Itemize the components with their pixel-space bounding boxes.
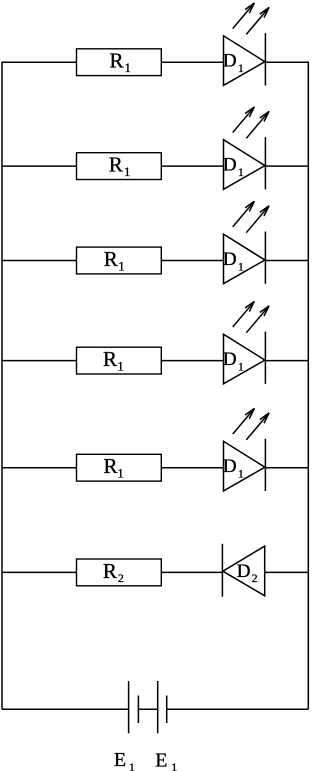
diode D2 xyxy=(222,544,264,597)
LED D1 branch 4 xyxy=(223,301,269,384)
wire D1 to right rail branch 4 xyxy=(265,360,308,362)
wire bottom left to battery xyxy=(2,708,129,710)
wire D1 to right rail branch 2 xyxy=(265,165,308,167)
svg-text:D: D xyxy=(223,249,237,270)
LED D1 branch 2 xyxy=(223,107,269,190)
svg-text:1: 1 xyxy=(238,259,244,273)
wire left rail to R1 branch 4 xyxy=(2,360,77,362)
svg-text:R: R xyxy=(109,153,123,177)
svg-text:2: 2 xyxy=(252,571,258,585)
wire left rail xyxy=(1,62,3,710)
wire right rail xyxy=(307,62,309,710)
wire left rail to R1 branch 3 xyxy=(2,260,77,262)
wire R1 to D1 branch 4 xyxy=(161,360,223,362)
svg-text:1: 1 xyxy=(171,760,177,771)
wire D2 to right rail xyxy=(265,571,309,573)
svg-text:1: 1 xyxy=(124,164,131,179)
wire left rail to R1 branch 1 xyxy=(2,61,77,63)
LED D1 branch 1 xyxy=(223,3,269,86)
svg-text:1: 1 xyxy=(125,60,132,75)
label E1 second xyxy=(155,749,177,771)
svg-text:E: E xyxy=(114,749,126,771)
svg-text:R: R xyxy=(103,347,117,371)
svg-text:1: 1 xyxy=(117,466,124,481)
wire between battery cells xyxy=(138,708,157,710)
LED D1 branch 5 xyxy=(223,408,269,491)
svg-text:1: 1 xyxy=(117,359,124,374)
resistor R1 branch 3 xyxy=(77,247,162,274)
resistor R1 branch 4 xyxy=(77,347,162,374)
wire R1 to D1 branch 1 xyxy=(161,61,223,63)
wire D1 to right rail branch 1 xyxy=(265,61,308,63)
svg-text:1: 1 xyxy=(238,61,244,75)
wire R1 to D1 branch 2 xyxy=(161,165,223,167)
svg-text:R: R xyxy=(103,559,117,583)
svg-text:R: R xyxy=(110,49,124,73)
svg-text:D: D xyxy=(223,456,237,477)
wire D1 to right rail branch 3 xyxy=(265,260,308,262)
resistor R2 branch 6 xyxy=(77,559,162,586)
svg-text:D: D xyxy=(223,154,237,175)
wire R1 to D1 branch 3 xyxy=(161,260,223,262)
svg-text:2: 2 xyxy=(118,571,124,585)
wire left rail to R1 branch 5 xyxy=(2,467,77,469)
svg-text:1: 1 xyxy=(238,467,244,481)
wire D1 to right rail branch 5 xyxy=(265,467,308,469)
svg-text:R: R xyxy=(104,247,118,271)
svg-text:D: D xyxy=(223,51,237,72)
wire battery to bottom right xyxy=(167,708,309,710)
svg-text:D: D xyxy=(237,561,251,582)
wire left rail to R2 branch 6 xyxy=(2,571,77,573)
LED D1 branch 3 xyxy=(223,201,269,284)
svg-text:E: E xyxy=(155,749,167,771)
wire R1 to D1 branch 5 xyxy=(161,467,223,469)
svg-text:1: 1 xyxy=(238,165,244,179)
wire left rail to R1 branch 2 xyxy=(2,165,77,167)
battery cell E1 second xyxy=(158,681,167,733)
resistor R1 branch 2 xyxy=(77,153,162,180)
battery cell E1 first xyxy=(129,681,139,733)
svg-text:1: 1 xyxy=(238,360,244,374)
label E1 first xyxy=(114,749,135,771)
wire R2 to D2 xyxy=(161,571,222,573)
resistor R1 branch 5 xyxy=(77,454,162,481)
svg-text:1: 1 xyxy=(129,760,135,771)
resistor R1 branch 1 xyxy=(77,49,162,76)
svg-text:R: R xyxy=(104,454,118,478)
svg-text:1: 1 xyxy=(118,259,125,274)
svg-text:D: D xyxy=(223,349,237,370)
